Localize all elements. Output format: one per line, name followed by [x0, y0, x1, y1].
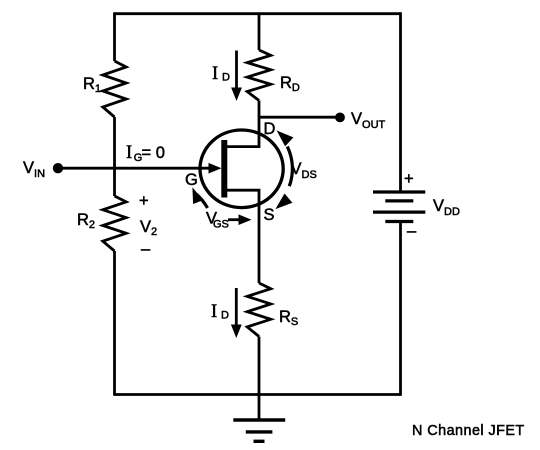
resistor RS [247, 283, 271, 337]
wire RD branch top [258, 14, 261, 51]
svg-text:VIN: VIN [23, 159, 45, 180]
ground bar 3 [254, 440, 265, 443]
wire source lead [227, 190, 259, 283]
node VOUT terminal dot [335, 113, 345, 123]
wire left rail middle [113, 117, 116, 196]
VGS straight arrow head [239, 214, 252, 225]
svg-text:N Channel JFET: N Channel JFET [412, 423, 525, 439]
resistor R2 [103, 196, 126, 251]
svg-text:–: – [407, 222, 417, 240]
svg-text:+: + [139, 192, 149, 210]
wire top rail [115, 12, 401, 15]
wire left rail lower [113, 251, 116, 396]
wire ground stub [258, 394, 261, 420]
current arrow ID upper line [235, 51, 238, 91]
svg-text:= 0: = 0 [142, 144, 165, 162]
VGS arc [196, 194, 207, 208]
VGS straight arrow line [228, 218, 240, 221]
current arrow ID lower head [231, 325, 242, 339]
VGS arc arrowhead [192, 187, 203, 204]
svg-text:I: I [212, 64, 218, 84]
ground bar 1 [233, 418, 285, 421]
VDS arc [287, 147, 292, 187]
battery VDD plate 3 long [373, 211, 425, 214]
wire right rail lower [399, 222, 402, 396]
svg-text:RS: RS [279, 308, 298, 328]
svg-text:–: – [141, 240, 151, 258]
node VIN terminal dot [53, 163, 63, 173]
resistor R1 [103, 61, 126, 117]
svg-text:+: + [404, 170, 414, 188]
VDS arc arrowhead bottom [275, 194, 292, 210]
current arrow ID lower line [235, 288, 238, 327]
transistor Q1 JFET body circle [200, 130, 283, 208]
transistor Q1 gate arrowhead [209, 163, 222, 174]
current arrow ID upper head [231, 88, 242, 102]
VDS arc arrowhead top [277, 131, 294, 147]
svg-text:VOUT: VOUT [351, 110, 386, 131]
svg-text:D: D [264, 120, 276, 138]
svg-text:GS: GS [213, 219, 229, 231]
wire bottom rail [115, 393, 401, 396]
svg-text:I: I [126, 143, 132, 163]
svg-text:VDS: VDS [291, 160, 317, 181]
wire RS to bottom rail [258, 337, 261, 395]
wire VOUT tap [259, 116, 337, 119]
svg-text:D: D [222, 72, 230, 84]
resistor RD [247, 50, 271, 101]
svg-text:RD: RD [280, 74, 300, 94]
battery VDD plate 2 short [385, 199, 413, 202]
wire right rail upper [399, 12, 402, 192]
svg-text:VDD: VDD [433, 197, 460, 218]
battery VDD plate 4 short negative [385, 220, 413, 223]
svg-text:V2: V2 [140, 218, 157, 238]
wire VIN to gate [61, 167, 210, 170]
wire left rail upper [113, 12, 116, 61]
wire drain lead [227, 101, 259, 147]
transistor Q1 gate bar [221, 140, 227, 198]
battery VDD plate 1 long positive [373, 190, 425, 193]
svg-text:R2: R2 [77, 211, 95, 231]
svg-text:I: I [211, 302, 217, 322]
ground bar 2 [246, 430, 273, 433]
svg-text:G: G [185, 171, 198, 189]
svg-text:S: S [264, 206, 275, 224]
svg-text:D: D [221, 310, 229, 322]
svg-text:R1: R1 [83, 75, 101, 95]
